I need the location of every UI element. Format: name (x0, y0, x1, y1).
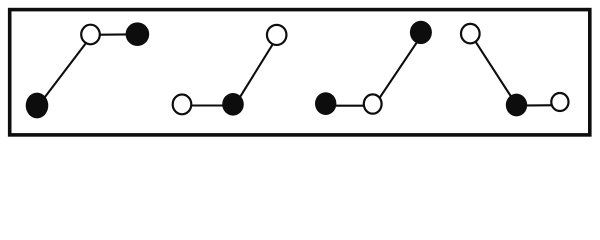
figure 2: horizontal bond from open atom to filled atom (182, 104, 233, 106)
figure 4: horizontal bond from filled atom to right open atom (517, 104, 560, 107)
figure 3: lower open atom (364, 94, 382, 113)
figure 1: bond from lower filled atom to upper open atom (39, 35, 93, 106)
figure 1: upper-right filled atom (126, 22, 150, 46)
figure 3: horizontal bond from filled atom to open atom (326, 105, 373, 107)
figure 3: upper filled atom (410, 21, 432, 44)
figure 3: lower-left filled atom (315, 92, 336, 115)
figure 2: bond from filled atom to upper open atom (236, 35, 279, 104)
figure 3: bond from open atom to upper filled atom (376, 32, 424, 104)
figure 1: lower-left filled atom (26, 93, 49, 119)
figure 1: horizontal bond from open atom to upper-right filled atom (91, 33, 137, 35)
figure 2: upper open atom (267, 25, 287, 45)
figure 4: lower-right open atom (551, 93, 568, 111)
figure 4: upper open atom (461, 24, 480, 44)
figure 2: lower filled atom (222, 93, 244, 116)
figure 1: upper open atom (81, 25, 100, 45)
figure 4: lower filled atom (506, 94, 527, 117)
figure 2: lower-left open atom (173, 95, 192, 115)
figure 4: bond from upper open atom to lower filled atom (470, 34, 516, 105)
